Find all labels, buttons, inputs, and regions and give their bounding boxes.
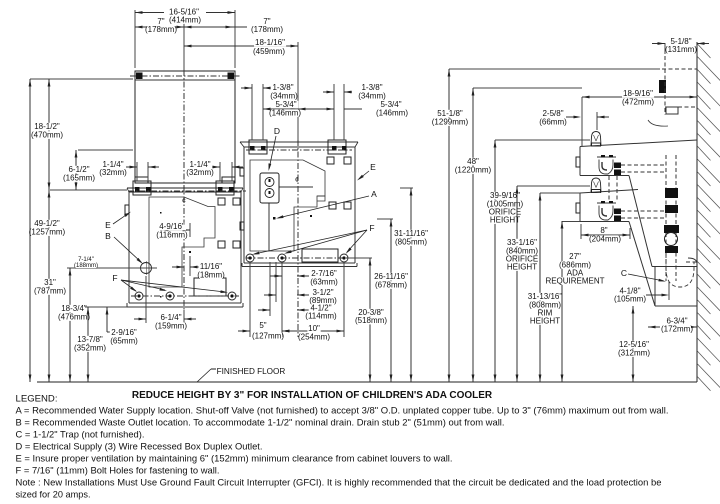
svg-text:Note : New Installations Must: Note : New Installations Must Use Ground… — [16, 478, 662, 488]
svg-text:HEIGHT: HEIGHT — [507, 263, 537, 272]
svg-text:E = Insure proper ventilation: E = Insure proper ventilation by maintai… — [16, 454, 453, 464]
svg-text:F: F — [369, 223, 374, 233]
svg-text:(518mm): (518mm) — [355, 316, 387, 325]
svg-text:(470mm): (470mm) — [31, 131, 63, 140]
svg-text:(352mm): (352mm) — [74, 344, 106, 353]
svg-text:C = 1-1/2" Trap (not furnished: C = 1-1/2" Trap (not furnished). — [16, 430, 145, 440]
svg-text:HEIGHT: HEIGHT — [490, 216, 520, 225]
svg-text:(204mm): (204mm) — [589, 235, 621, 244]
svg-text:(414mm): (414mm) — [169, 16, 201, 25]
svg-text:(805mm): (805mm) — [395, 238, 427, 247]
svg-text:18-1/16": 18-1/16" — [255, 38, 285, 47]
svg-text:(787mm): (787mm) — [34, 287, 66, 296]
svg-text:E: E — [370, 162, 376, 172]
svg-text:5": 5" — [259, 321, 266, 330]
svg-text:(127mm): (127mm) — [252, 332, 284, 341]
svg-text:F: F — [112, 273, 117, 283]
svg-text:D: D — [274, 126, 280, 136]
svg-text:(131mm): (131mm) — [665, 45, 697, 54]
svg-text:(1299mm): (1299mm) — [432, 118, 469, 127]
svg-text:¢: ¢ — [295, 177, 299, 184]
svg-text:(159mm): (159mm) — [155, 322, 187, 331]
svg-text:C: C — [621, 268, 627, 278]
svg-text:(312mm): (312mm) — [618, 349, 650, 358]
svg-text:(472mm): (472mm) — [622, 98, 654, 107]
svg-text:(63mm): (63mm) — [310, 278, 338, 287]
svg-text:(172mm): (172mm) — [661, 325, 693, 334]
svg-text:(18mm): (18mm) — [197, 271, 225, 280]
svg-text:A: A — [371, 189, 377, 199]
svg-text:REQUIREMENT: REQUIREMENT — [545, 277, 604, 286]
svg-text:sized for 20 amps.: sized for 20 amps. — [16, 490, 91, 500]
svg-text:(178mm): (178mm) — [251, 25, 283, 34]
svg-text:(105mm): (105mm) — [614, 295, 646, 304]
svg-text:(146mm): (146mm) — [376, 109, 408, 118]
svg-text:LEGEND:: LEGEND: — [16, 394, 58, 404]
svg-text:HEIGHT: HEIGHT — [530, 317, 560, 326]
svg-text:(65mm): (65mm) — [110, 337, 138, 346]
svg-text:(188mm): (188mm) — [74, 263, 98, 269]
svg-text:REDUCE HEIGHT BY 3" FOR INSTAL: REDUCE HEIGHT BY 3" FOR INSTALLATION OF … — [132, 390, 493, 401]
svg-text:¢: ¢ — [182, 198, 186, 205]
svg-text:(678mm): (678mm) — [375, 281, 407, 290]
svg-text:(178mm): (178mm) — [145, 25, 177, 34]
svg-text:(32mm): (32mm) — [99, 168, 127, 177]
svg-text:E: E — [105, 220, 111, 230]
svg-text:(114mm): (114mm) — [305, 312, 337, 321]
svg-text:(32mm): (32mm) — [186, 168, 214, 177]
svg-text:(66mm): (66mm) — [539, 118, 567, 127]
svg-text:(165mm): (165mm) — [63, 174, 95, 183]
svg-text:(254mm): (254mm) — [298, 333, 330, 342]
svg-text:(116mm): (116mm) — [156, 231, 188, 240]
svg-text:(1220mm): (1220mm) — [455, 166, 492, 175]
svg-text:(476mm): (476mm) — [58, 313, 90, 322]
svg-text:B = Recommended Waste Outlet l: B = Recommended Waste Outlet location. T… — [16, 418, 505, 428]
svg-text:D = Electrical Supply (3) Wire: D = Electrical Supply (3) Wire Recessed … — [16, 442, 263, 452]
svg-text:(146mm): (146mm) — [269, 109, 301, 118]
svg-text:FINISHED FLOOR: FINISHED FLOOR — [217, 367, 286, 376]
svg-text:(1257mm): (1257mm) — [29, 228, 66, 237]
svg-text:B: B — [105, 231, 111, 241]
svg-text:A = Recommended Water Supply l: A = Recommended Water Supply location. S… — [16, 406, 669, 416]
svg-text:(459mm): (459mm) — [253, 47, 285, 56]
svg-text:F = 7/16" (11mm) Bolt Holes fo: F = 7/16" (11mm) Bolt Holes for fastenin… — [16, 466, 220, 476]
